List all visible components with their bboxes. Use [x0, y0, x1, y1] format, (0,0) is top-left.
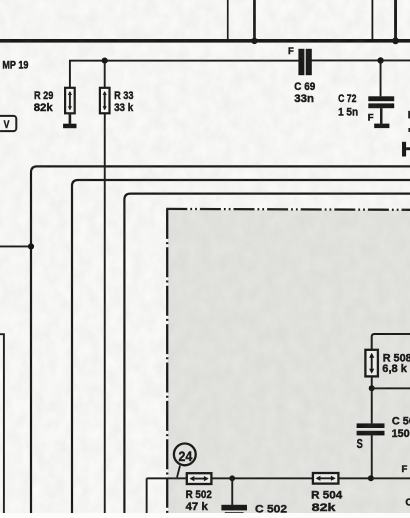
wire from left edge to shield 1 — [0, 246, 31, 248]
wire R508 bottom — [371, 376, 373, 388]
capacitor C502 — [221, 505, 247, 513]
wire bottom rail right segment — [338, 477, 410, 479]
resistor R29 — [65, 88, 75, 114]
wire horizontal node at y60 (right part from C69) — [311, 60, 410, 62]
circled pin 24 — [174, 444, 196, 478]
shielded module region (gray) — [168, 210, 410, 513]
wire C72 to ground — [380, 108, 383, 124]
capacitor C72 — [368, 96, 394, 108]
wire R33 down long vertical — [104, 113, 106, 513]
resistor R504 — [313, 473, 339, 484]
wire vertical from top edge 3 — [372, 0, 374, 40]
wire from right edge to R508 — [372, 334, 410, 350]
wire R29 to ground — [69, 113, 72, 124]
module border dash-dot top — [166, 208, 410, 211]
junction on bus at x254 — [251, 38, 257, 44]
shield line 1 — [31, 166, 410, 513]
junction under R508 — [369, 385, 375, 391]
wire junction down to C505 — [371, 388, 373, 423]
ground under C72 — [374, 124, 389, 129]
junction at C72 tap — [377, 57, 383, 63]
module border dash-dot left — [166, 209, 168, 513]
resistor R508 — [365, 350, 378, 377]
partial glyph right edge mid — [408, 128, 410, 132]
wire top bus (thick) — [0, 39, 410, 43]
shield line 2 — [72, 180, 410, 513]
junction at R33 top — [102, 58, 108, 64]
capacitor C505 — [357, 423, 385, 435]
wire vertical from top edge 1 — [227, 0, 229, 40]
wire bottom rail left segment — [147, 477, 187, 479]
junction on bus at x395 — [392, 37, 399, 44]
wire vertical from top edge 2 — [253, 0, 256, 41]
wire C72 vertical — [380, 61, 382, 97]
shield line 3 — [124, 194, 410, 513]
junction at C502 tap — [229, 475, 235, 481]
junction on shield 1 — [28, 243, 34, 249]
wire vertical from top edge 4 — [394, 0, 397, 41]
wire C505 down — [371, 435, 373, 478]
wire horizontal node at y60 (left part to C69) — [69, 60, 299, 62]
ground under R29 — [63, 124, 76, 129]
capacitor C69 — [298, 49, 311, 75]
label H partial heading — [402, 142, 410, 157]
wire R29 top branch — [69, 61, 71, 88]
wire junction to right edge — [372, 387, 410, 389]
partial glyph right edge upper — [408, 111, 410, 119]
wire bottom rail mid segment — [211, 477, 313, 479]
resistor R502 — [187, 473, 212, 484]
wire R33 top branch — [104, 61, 106, 88]
box V terminal — [0, 116, 16, 131]
junction at R504 node — [368, 475, 374, 481]
wire bottom rail corner down at left — [146, 478, 148, 513]
wire C502 vertical — [231, 478, 233, 505]
wire from left edge turning down — [0, 334, 4, 513]
resistor R33 — [100, 88, 110, 114]
